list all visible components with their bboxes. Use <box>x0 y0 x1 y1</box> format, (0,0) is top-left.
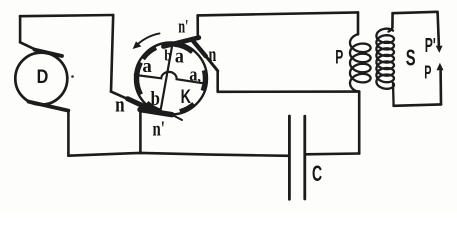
wire n right vertical <box>216 71 219 92</box>
wire n' top vertical <box>196 15 199 37</box>
wire left vertical <box>19 16 22 42</box>
dynamo D brush contact bottom <box>29 102 69 111</box>
svg-text:n: n <box>115 92 125 117</box>
wire left brush vertical <box>111 15 113 92</box>
secondary coil S <box>376 29 394 89</box>
wire n' bottom tail <box>172 115 182 120</box>
wire P arrow up <box>439 71 442 105</box>
wire P coil bottom connect <box>356 90 359 93</box>
wire S top connect <box>389 28 393 32</box>
commutator K circle <box>135 43 207 115</box>
svg-text:b: b <box>151 88 160 110</box>
commutator split line <box>160 43 173 113</box>
brush contact n' bottom (thick) <box>140 110 172 115</box>
svg-text:S: S <box>406 45 416 71</box>
brush contact n' top (thick) <box>164 38 199 47</box>
wire D bottom down <box>67 111 70 156</box>
capacitor C right plate <box>303 116 306 199</box>
ink speck right of D <box>71 75 74 78</box>
svg-text:P: P <box>335 47 343 68</box>
secondary bottom wire <box>394 104 441 105</box>
secondary top wire <box>393 12 438 13</box>
svg-text:K: K <box>181 87 191 108</box>
brush contact n right (thick slant) <box>192 40 206 56</box>
svg-text:n': n' <box>178 17 188 38</box>
svg-text:a: a <box>142 56 152 77</box>
svg-text:n: n <box>209 44 217 66</box>
arrowhead rotation arrow <box>133 41 142 49</box>
wire middle horizontal to P bottom <box>218 90 360 93</box>
svg-text:P: P <box>424 62 431 82</box>
commutator axle line with hump <box>135 72 205 84</box>
wire S top vertical <box>391 13 394 27</box>
arrowhead P' down <box>436 46 443 53</box>
capacitor C left plate <box>288 116 291 199</box>
dynamo D circle <box>15 53 67 105</box>
wire junction down to capacitor <box>358 92 361 154</box>
commutator K rim segments (black arcs) <box>137 44 206 112</box>
wire S bottom connect <box>392 83 395 106</box>
svg-text:b: b <box>164 48 171 65</box>
rotation arrow curve <box>135 33 159 46</box>
svg-text:,: , <box>197 69 201 85</box>
svg-text:C: C <box>312 161 322 186</box>
wire top-left horizontal <box>20 15 113 16</box>
svg-text:P': P' <box>425 35 436 57</box>
svg-text:D: D <box>37 67 49 88</box>
wire down to primary coil P <box>357 12 360 34</box>
wire slant to dynamo D top <box>20 42 37 50</box>
arrowhead P up <box>437 63 444 71</box>
wire bottom horizontal <box>68 153 289 156</box>
wire n right slant <box>206 56 218 71</box>
wire P' arrow down <box>438 12 439 46</box>
svg-text:a: a <box>175 45 184 67</box>
wire left brush slant <box>111 92 130 100</box>
brush contact n left (thick) <box>128 99 150 109</box>
dynamo D brush contact top <box>35 50 63 56</box>
wire top-right horizontal <box>198 12 358 15</box>
wire n' bottom vertical <box>139 112 142 153</box>
primary coil P <box>350 34 371 91</box>
svg-text:n': n' <box>153 117 165 141</box>
wire capacitor right plate lead <box>306 152 359 155</box>
